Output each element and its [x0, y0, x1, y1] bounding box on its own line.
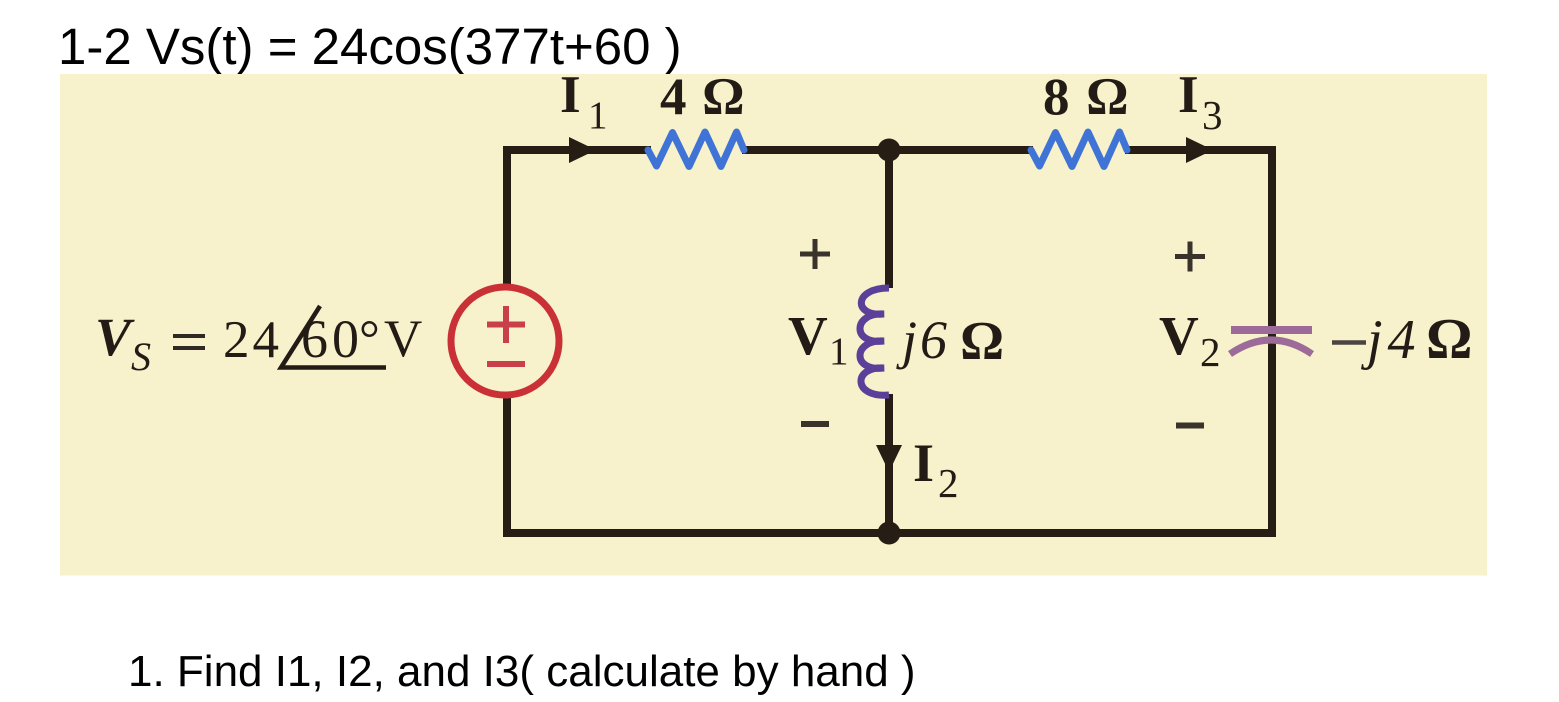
label minus j4 ohm	[1332, 306, 1472, 371]
wire middle vertical lower	[885, 394, 893, 537]
label I2	[913, 433, 959, 506]
svg-text:S: S	[131, 334, 151, 379]
label 8 ohm	[1043, 68, 1128, 127]
svg-text:1: 1	[588, 94, 608, 137]
label plus V2	[1175, 242, 1205, 272]
wire top right horizontal	[1125, 146, 1276, 154]
label V1	[788, 305, 849, 373]
resistor R1 4-ohm zigzag	[648, 132, 744, 167]
circuit panel background	[60, 74, 1487, 576]
svg-text:V: V	[788, 305, 828, 366]
wire right vertical	[1268, 146, 1276, 537]
resistor R2 8-ohm zigzag	[1031, 132, 1127, 167]
svg-text:V: V	[1159, 305, 1199, 366]
wire top left horizontal	[503, 146, 651, 154]
label minus V2	[1176, 423, 1204, 429]
voltage source plus sign	[487, 306, 525, 343]
node junction bottom	[878, 522, 901, 545]
label plus V1	[800, 239, 830, 269]
title text line	[58, 18, 682, 75]
wire middle vertical upper	[885, 146, 893, 288]
svg-text:V: V	[384, 310, 422, 368]
svg-text:°: °	[359, 311, 380, 368]
label I3	[1178, 66, 1223, 138]
label j6 ohm	[896, 310, 1003, 371]
svg-text:Ω: Ω	[1427, 306, 1472, 371]
current arrow I3	[1186, 137, 1213, 163]
svg-text:1-2 Vs(t) = 24cos(377t+60 ): 1-2 Vs(t) = 24cos(377t+60 )	[58, 18, 682, 75]
svg-text:2: 2	[1200, 329, 1221, 375]
svg-text:3: 3	[1202, 92, 1223, 138]
svg-text:1: 1	[829, 330, 849, 373]
wire bottom horizontal	[503, 529, 1276, 537]
svg-text:2: 2	[938, 460, 959, 506]
wire left vertical upper	[503, 146, 511, 286]
inductor L1 j6-ohm coil	[860, 288, 889, 395]
current arrow I2	[876, 445, 902, 472]
svg-text:Ω: Ω	[961, 310, 1003, 371]
svg-text:4: 4	[660, 69, 687, 127]
equals sign of VS label	[173, 336, 205, 348]
wire left vertical lower	[503, 397, 511, 537]
current arrow I1	[569, 137, 596, 163]
angle symbol of VS label	[281, 306, 386, 368]
svg-text:I: I	[560, 66, 581, 124]
svg-text:j4: j4	[1361, 309, 1421, 371]
voltage source minus sign	[487, 361, 525, 367]
label 4 ohm	[660, 68, 744, 127]
label minus V1	[801, 421, 829, 427]
label VS source value	[95, 307, 422, 379]
svg-text:j6: j6	[896, 310, 950, 370]
capacitor C1 bottom curved plate	[1230, 340, 1312, 354]
wire top middle horizontal	[742, 146, 1033, 154]
svg-text:8: 8	[1043, 69, 1070, 127]
svg-text:24: 24	[223, 311, 282, 369]
svg-text:V: V	[95, 307, 135, 367]
svg-text:1. Find I1, I2, and I3( calcul: 1. Find I1, I2, and I3( calculate by han…	[128, 647, 916, 696]
svg-text:I: I	[913, 433, 934, 493]
bottom instruction text	[128, 647, 916, 696]
svg-text:Ω: Ω	[703, 68, 744, 126]
voltage source VS circle	[451, 287, 559, 395]
svg-text:I: I	[1178, 66, 1199, 124]
capacitor C1 top plate	[1231, 326, 1312, 334]
svg-text:Ω: Ω	[1087, 68, 1128, 126]
label I1	[560, 66, 608, 137]
label V2	[1159, 305, 1221, 375]
node junction top	[878, 139, 901, 162]
